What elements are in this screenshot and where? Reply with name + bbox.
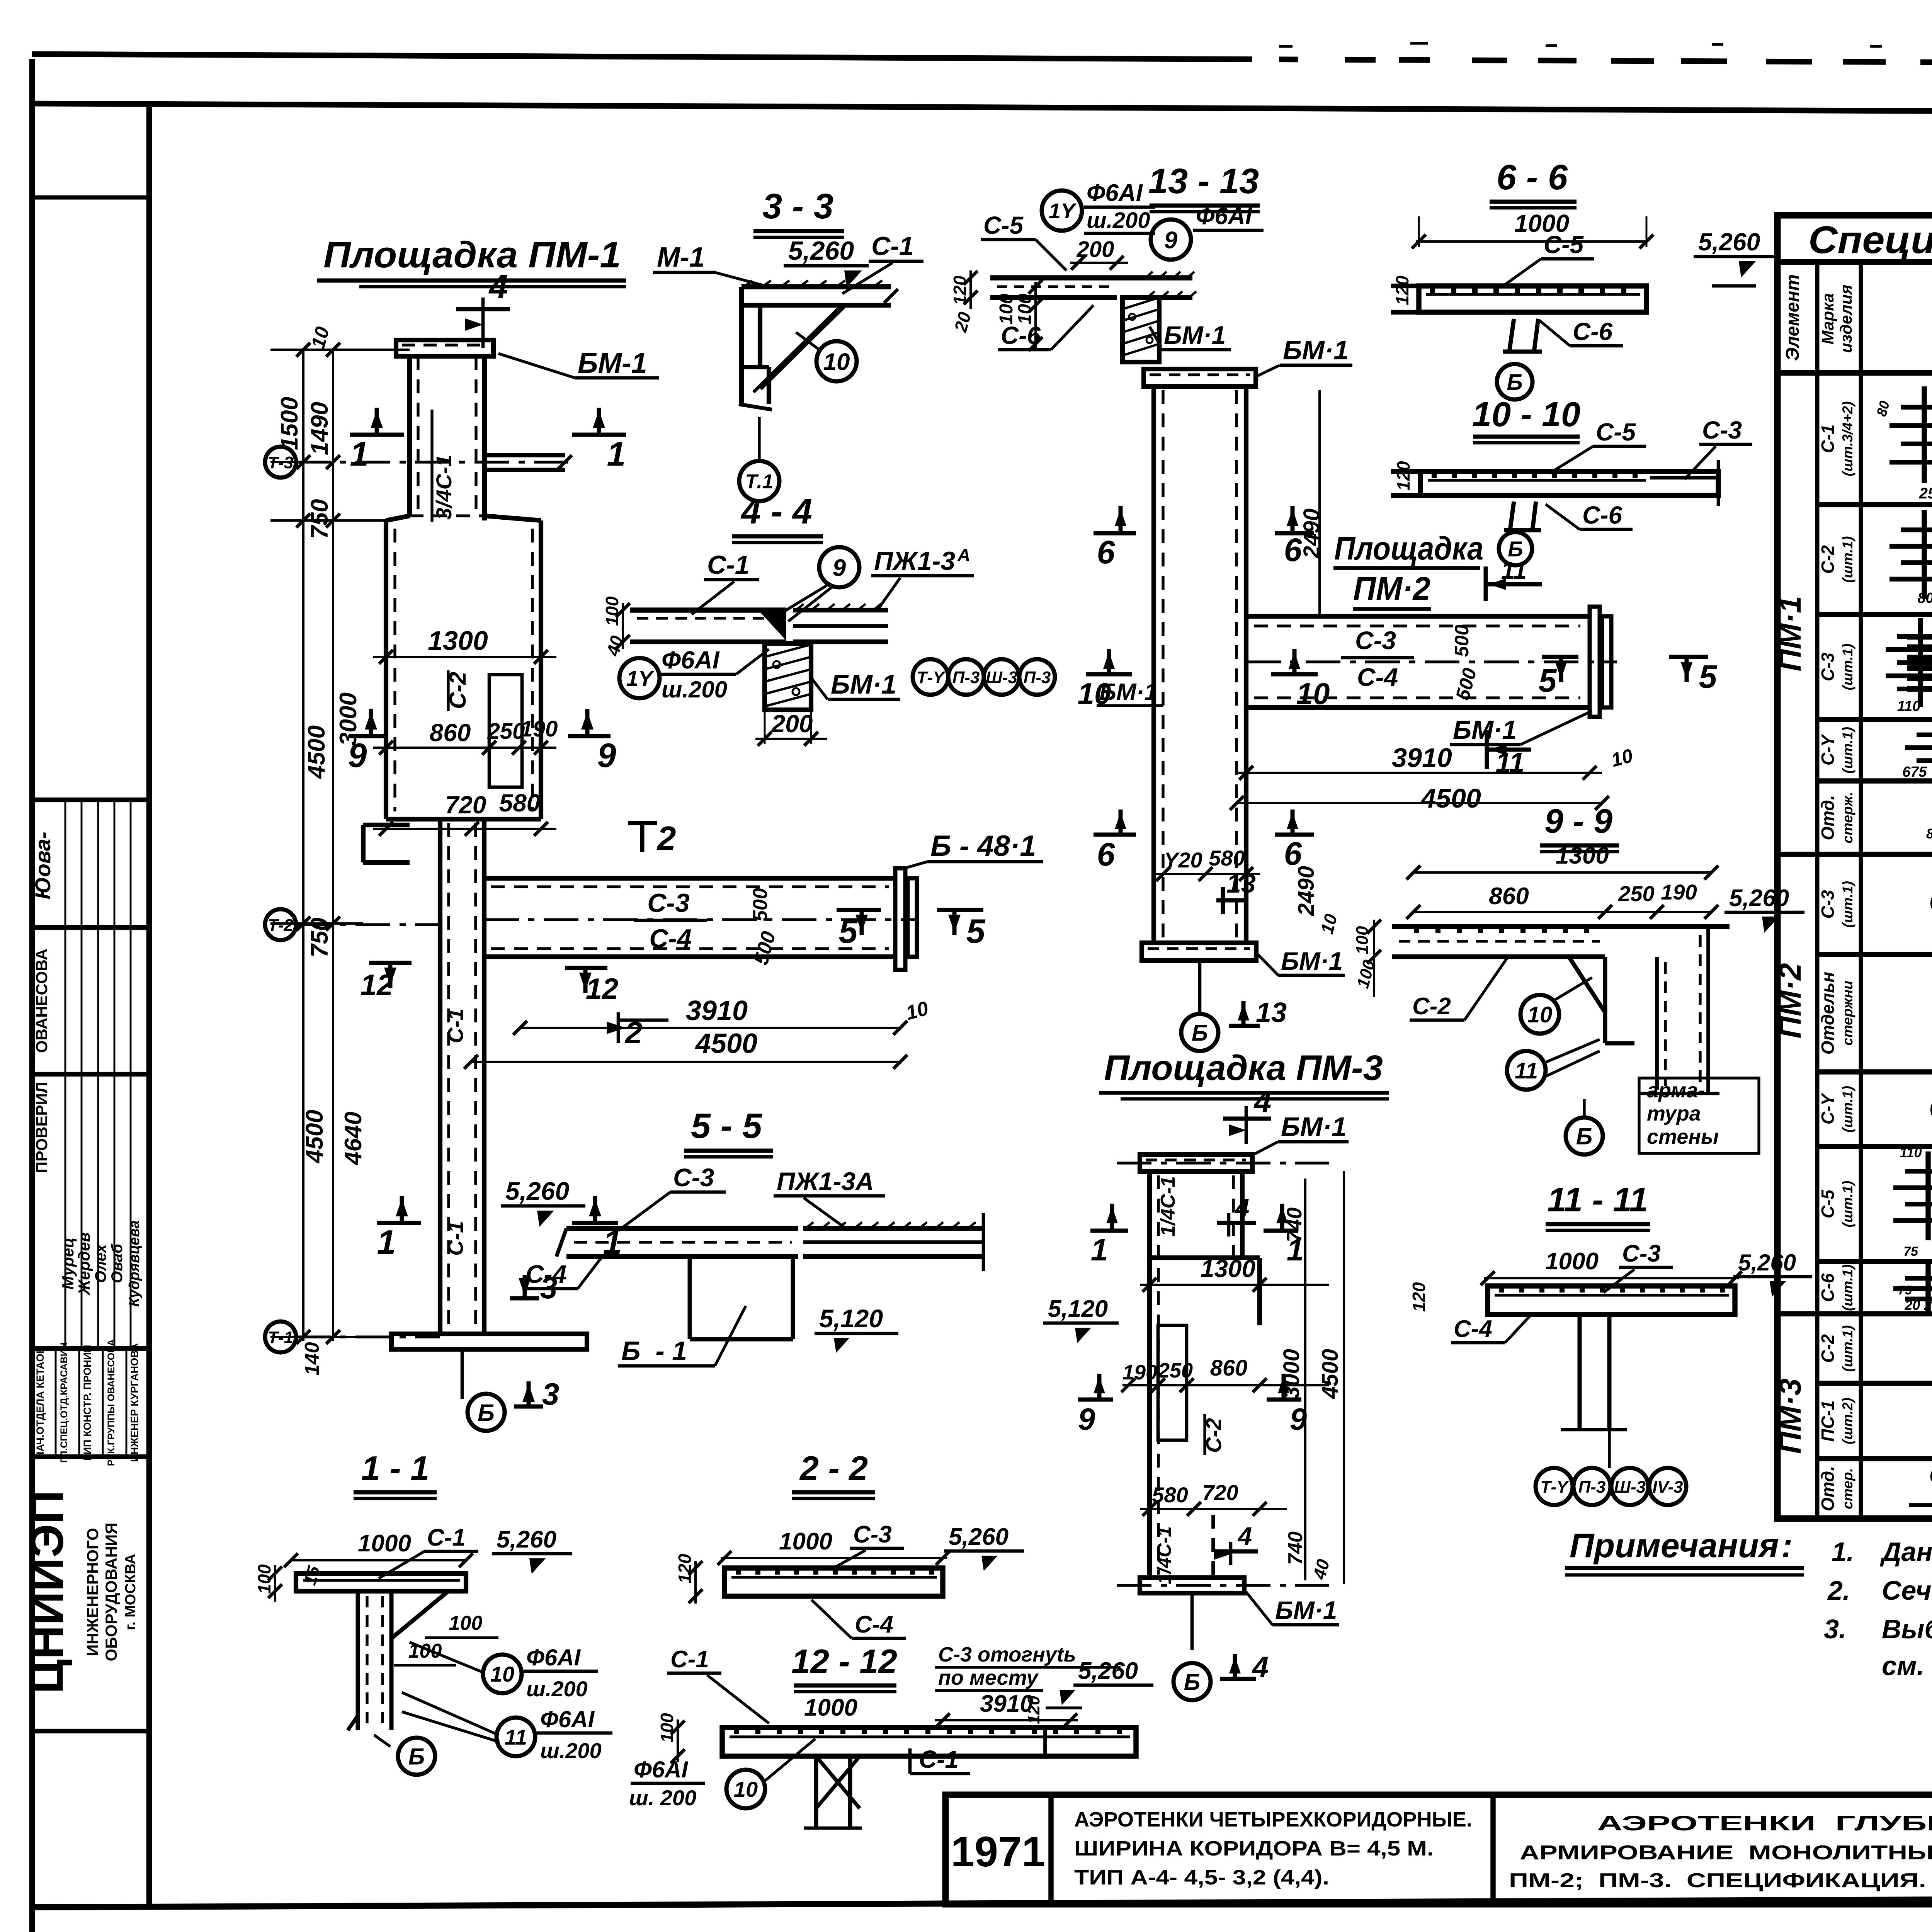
plan PM-3 section mark 9 left [1078, 1398, 1113, 1402]
plan PM-2 section mark 10 left [1086, 672, 1132, 677]
svg-text:С-3: С-3 [1355, 626, 1396, 655]
spec table eskiz C-4 mesh [1917, 733, 1932, 737]
plan PM-1 dim chain lines left [302, 348, 304, 1341]
section 12-12 stem with X-brace [814, 1756, 818, 1828]
svg-text:ПМ·2: ПМ·2 [1353, 570, 1430, 607]
svg-text:(шт.1): (шт.1) [1840, 881, 1855, 928]
svg-text::: : [1781, 1526, 1793, 1565]
svg-text:БМ·1: БМ·1 [1281, 1112, 1347, 1142]
svg-text:3 - 3: 3 - 3 [762, 187, 833, 226]
plan PM-3 top bearing plate [1140, 1155, 1252, 1172]
plan PM-3 mark 4 small [1227, 1213, 1231, 1236]
svg-text:75: 75 [1903, 1244, 1918, 1259]
svg-text:120: 120 [675, 1554, 695, 1583]
svg-text:Т-2: Т-2 [268, 916, 294, 935]
title block vertical dividers [1048, 1795, 1053, 1904]
svg-text:ПЖ1-3А: ПЖ1-3А [777, 1167, 874, 1196]
svg-text:С-1: С-1 [443, 1221, 468, 1256]
svg-text:1.: 1. [1832, 1537, 1854, 1567]
section 3-3 callout 10 [816, 341, 857, 381]
section 9-9 callout 10 [1520, 995, 1559, 1034]
svg-text:С-2: С-2 [1818, 545, 1838, 574]
svg-text:ПЖ1-3: ПЖ1-3 [874, 546, 955, 576]
svg-text:Т.1: Т.1 [745, 471, 773, 493]
section 3-3 axis circle T.1 [739, 461, 779, 501]
svg-text:ш.200: ш.200 [1087, 208, 1150, 233]
section 4-4 callout 14 rebar [619, 658, 660, 698]
svg-text:(шт.3/4+2): (шт.3/4+2) [1840, 401, 1855, 476]
svg-text:БМ·1: БМ·1 [1281, 947, 1343, 975]
svg-text:стержни: стержни [1840, 981, 1855, 1046]
plan PM-1 section mark 1 lower left [377, 1221, 421, 1225]
svg-text:IV-3: IV-3 [1652, 1478, 1683, 1497]
plan PM-2 top bearing plate [1144, 369, 1256, 386]
svg-text:9: 9 [597, 736, 616, 774]
section 9-9 callout 11 [1507, 1051, 1546, 1090]
svg-text:Отд.: Отд. [1818, 1466, 1838, 1511]
svg-text:г. МОСКВА: г. МОСКВА [122, 1554, 139, 1630]
svg-text:С-1: С-1 [443, 1009, 468, 1043]
svg-text:Кудрявцева: Кудрявцева [126, 1220, 143, 1307]
svg-text:120: 120 [1392, 276, 1412, 305]
svg-text:10: 10 [823, 349, 850, 375]
section 5-5 slab right [803, 1226, 983, 1231]
svg-text:С-Y: С-Y [1818, 1092, 1838, 1125]
plan PM-1 section mark 3 upper [510, 1296, 539, 1301]
svg-text:ПС-1: ПС-1 [1818, 1400, 1838, 1442]
svg-text:Б: Б [1576, 1124, 1592, 1150]
svg-text:Данный лист см. совместно: Данный лист см. совместно с листом КС-34… [1880, 1537, 1932, 1567]
svg-text:Олех: Олех [92, 1244, 109, 1283]
svg-text:(шт.1): (шт.1) [1840, 1181, 1855, 1228]
section 1-1 node B [398, 1738, 435, 1775]
svg-text:П-3: П-3 [1024, 668, 1051, 687]
svg-text:1000: 1000 [1545, 1248, 1599, 1275]
svg-text:720: 720 [445, 791, 486, 819]
plan PM-1 section mark 5 right [937, 908, 983, 912]
section 4-4 column hatched [765, 643, 811, 710]
svg-text:3.: 3. [1824, 1614, 1846, 1644]
plan PM-1 lower wall strip [438, 819, 442, 1334]
section 6-6 node B [1497, 364, 1532, 400]
svg-text:Б - 48·1: Б - 48·1 [930, 830, 1036, 862]
svg-text:ТИП А-4- 4,5- 3,2 (4,4).: ТИП А-4- 4,5- 3,2 (4,4). [1074, 1866, 1329, 1889]
svg-text:5,260: 5,260 [949, 1524, 1009, 1550]
sheet inner border bottom [32, 1896, 1932, 1907]
svg-text:1: 1 [607, 435, 626, 473]
svg-text:С-1: С-1 [919, 1745, 959, 1773]
plan PM-1 axis T-2 [265, 909, 296, 940]
svg-text:140: 140 [301, 1342, 323, 1376]
svg-text:ИНЖЕНЕРНОГО: ИНЖЕНЕРНОГО [83, 1528, 102, 1656]
svg-text:10: 10 [1296, 677, 1330, 711]
svg-text:190: 190 [1661, 880, 1697, 904]
svg-text:6: 6 [1284, 532, 1303, 568]
spec table eskiz C-3 mesh [1897, 634, 1932, 639]
svg-text:ИНЖЕНЕР КУРГАНОВА: ИНЖЕНЕР КУРГАНОВА [129, 1343, 140, 1462]
svg-text:стерж.: стерж. [1840, 792, 1855, 843]
section 1-1 brace [391, 1591, 448, 1638]
svg-text:80: 80 [1926, 826, 1932, 842]
svg-text:Б: Б [1192, 1020, 1208, 1046]
svg-text:5,260: 5,260 [1698, 228, 1760, 256]
plan PM-1 bottom plate [391, 1334, 587, 1349]
plan PM-3 section mark 1 upper right [1264, 1229, 1298, 1233]
svg-text:Мурец: Мурец [59, 1237, 77, 1289]
svg-text:С-1: С-1 [427, 1524, 466, 1551]
svg-text:120: 120 [1393, 461, 1413, 491]
svg-text:Примечания: Примечания [1570, 1526, 1779, 1565]
svg-text:1000: 1000 [358, 1530, 411, 1557]
plan PM-1 wall opening dashed [489, 675, 522, 787]
spec table eskiz C-5 mesh [1905, 1169, 1932, 1173]
svg-text:ОБОРУДОВАНИЯ: ОБОРУДОВАНИЯ [102, 1523, 120, 1662]
svg-text:БМ·1: БМ·1 [831, 669, 896, 699]
plan PM-1 axis arm beam [485, 453, 565, 457]
plan PM-3 wall strip [1147, 1172, 1152, 1578]
section 9-9 node B [1566, 1117, 1603, 1155]
svg-text:Б - 1: Б - 1 [621, 1336, 687, 1366]
svg-text:С-3: С-3 [1818, 653, 1838, 682]
section 3-3 brace [760, 305, 844, 388]
svg-text:стер.: стер. [1840, 1468, 1855, 1509]
section 11-11 slab [1488, 1286, 1735, 1315]
svg-text:БМ·1: БМ·1 [1275, 1596, 1337, 1624]
axis circles row T-4 P-3 Sh-3 IV-3 lower [1536, 1468, 1573, 1505]
svg-text:С-4: С-4 [1454, 1316, 1492, 1342]
svg-text:5: 5 [1699, 658, 1718, 695]
svg-text:5,260: 5,260 [1078, 1658, 1138, 1684]
svg-text:4500: 4500 [695, 1028, 757, 1059]
svg-text:С-5: С-5 [1596, 418, 1636, 446]
sheet outer border left [29, 59, 35, 1932]
svg-text:75: 75 [1898, 1283, 1912, 1297]
svg-text:ГЛ.СПЕЦ.ОТД.КРАСАВИН: ГЛ.СПЕЦ.ОТД.КРАСАВИН [59, 1342, 70, 1463]
svg-text:500: 500 [749, 888, 772, 922]
svg-text:М-1: М-1 [657, 242, 705, 273]
svg-text:НАЧ.ОТДЕЛА КЕТАОВ: НАЧ.ОТДЕЛА КЕТАОВ [34, 1346, 46, 1459]
svg-text:4640: 4640 [340, 1112, 367, 1166]
svg-text:4: 4 [1237, 1522, 1252, 1550]
svg-text:4500: 4500 [1318, 1349, 1343, 1399]
svg-text:Площадка ПМ-1: Площадка ПМ-1 [323, 234, 621, 276]
plan PM-1 section mark 1 right [572, 433, 626, 437]
svg-text:Т-Y: Т-Y [1541, 1478, 1570, 1497]
section 10-10 bottom stub [1510, 502, 1514, 530]
plan PM-3 lower block [1147, 1515, 1152, 1578]
top border scan breaks [1252, 49, 1279, 65]
svg-text:С-5: С-5 [1818, 1189, 1838, 1219]
svg-text:6: 6 [1097, 836, 1116, 872]
svg-text:ПМ·1: ПМ·1 [1773, 596, 1807, 671]
section 10-10 mark 11 [1484, 566, 1488, 601]
svg-text:(шт.2): (шт.2) [1840, 1398, 1855, 1444]
plan PM-1 upper wall strip [407, 356, 412, 516]
svg-text:ПМ-2; ПМ-3. СПЕЦИФИКАЦИЯ.: ПМ-2; ПМ-3. СПЕЦИФИКАЦИЯ. [1509, 1869, 1926, 1892]
svg-text:120: 120 [1024, 1696, 1043, 1724]
plan PM-2 section mark 6 lower right [1275, 833, 1314, 837]
section 10-10 left stub [1391, 469, 1420, 474]
svg-text:Ф6АI: Ф6АI [526, 1645, 581, 1670]
svg-text:1971: 1971 [951, 1828, 1046, 1876]
svg-text:740: 740 [1283, 1207, 1306, 1242]
svg-text:5,260: 5,260 [788, 236, 854, 265]
svg-text:С-3: С-3 [1622, 1240, 1661, 1267]
svg-text:750: 750 [306, 918, 333, 957]
section 12-12 slab [722, 1728, 1136, 1756]
svg-text:2 - 2: 2 - 2 [799, 1449, 868, 1487]
svg-text:ЦНИИЭП: ЦНИИЭП [20, 1490, 73, 1694]
svg-text:1000: 1000 [779, 1528, 832, 1555]
svg-text:Ш-3: Ш-3 [986, 668, 1017, 687]
svg-text:С-3 отогнуtь: С-3 отогнуtь [938, 1643, 1076, 1666]
section 4-4 slab right PZh [793, 608, 888, 612]
svg-text:3/4С-1: 3/4С-1 [432, 455, 456, 520]
svg-text:Ф6АI: Ф6АI [1196, 203, 1253, 230]
svg-text:250: 250 [487, 719, 525, 744]
plan PM-2 section mark 6 upper left [1094, 531, 1136, 536]
svg-text:1300: 1300 [1556, 842, 1609, 869]
svg-text:См. выше.: См. выше. [1929, 884, 1932, 918]
sheet outer border top [32, 54, 1932, 66]
plan PM-2 section mark 10 right [1271, 672, 1318, 677]
svg-text:(шт.1): (шт.1) [1840, 536, 1855, 583]
svg-text:500: 500 [1451, 624, 1473, 657]
svg-text:10: 10 [1527, 1002, 1553, 1027]
title block outer [946, 1795, 1932, 1904]
svg-text:860: 860 [1489, 883, 1529, 910]
svg-text:20 200х28=5800 20: 20 200х28=5800 20 [1904, 1297, 1932, 1313]
svg-text:200: 200 [771, 710, 813, 738]
svg-text:6: 6 [1097, 534, 1116, 570]
spec table eskiz C-2 mesh [1901, 527, 1932, 532]
plan PM-2 section mark 6 lower left [1094, 833, 1136, 837]
svg-text:Оваб: Оваб [109, 1243, 126, 1283]
section 6-6 left wall stub [1391, 284, 1419, 288]
svg-text:(шт.1): (шт.1) [1840, 1264, 1855, 1311]
spec table eskiz ditto mark [1909, 1503, 1932, 1507]
svg-text:Ш-3: Ш-3 [1614, 1478, 1646, 1497]
spec table header column lines [1815, 262, 1820, 373]
svg-text:110: 110 [1900, 1145, 1922, 1160]
svg-text:РУК.ГРУППЫ ОВАНЕСОВА: РУК.ГРУППЫ ОВАНЕСОВА [106, 1339, 117, 1466]
svg-text:Ф6АI: Ф6АI [634, 1757, 689, 1782]
svg-text:ш. 200: ш. 200 [629, 1786, 696, 1810]
svg-text:3910: 3910 [1392, 743, 1452, 773]
svg-text:Б: Б [1507, 370, 1522, 395]
svg-text:изделия: изделия [1837, 285, 1855, 353]
svg-text:ш.200: ш.200 [662, 677, 727, 702]
svg-text:С-2: С-2 [1818, 1334, 1838, 1363]
svg-text:1: 1 [377, 1223, 396, 1261]
section 12-12 callout 10 [726, 1770, 765, 1808]
section 13-13 callout 14 [1042, 190, 1082, 231]
svg-text:100: 100 [602, 596, 622, 626]
svg-text:А: А [957, 545, 970, 565]
svg-text:675: 675 [1902, 764, 1927, 780]
svg-text:12: 12 [586, 973, 619, 1005]
svg-text:860: 860 [1210, 1355, 1248, 1381]
svg-text:1: 1 [1091, 1233, 1108, 1267]
plan PM-1 section mark 1 lower right [572, 1221, 618, 1225]
plan PM-1 beam arm right [484, 876, 895, 881]
svg-text:Б: Б [478, 1400, 495, 1426]
svg-text:БМ-1: БМ-1 [578, 347, 647, 379]
svg-text:Ф6АI: Ф6АI [662, 646, 720, 674]
svg-text:1000: 1000 [804, 1694, 857, 1721]
svg-text:100: 100 [657, 1713, 677, 1743]
left strip signature table column lines [65, 800, 66, 1349]
section 9-9 wall below dashed [1655, 957, 1659, 1090]
svg-text:4500: 4500 [303, 725, 330, 779]
svg-text:Жердев: Жердев [75, 1232, 93, 1296]
plan PM-2 section mark 5 left [1542, 655, 1578, 659]
plan PM-3 opening dashed [1158, 1325, 1187, 1440]
section 2-2 slab [724, 1568, 943, 1596]
svg-text:580: 580 [499, 789, 541, 817]
plan PM-3 section mark 4 top [1245, 1106, 1248, 1144]
plan PM-3 axis line top [1117, 1162, 1329, 1164]
svg-text:120: 120 [1409, 1282, 1429, 1312]
svg-text:С-6: С-6 [1573, 318, 1613, 345]
svg-text:С-4: С-4 [855, 1611, 893, 1638]
svg-text:190: 190 [1122, 1361, 1157, 1384]
plan PM-1 section mark 2 top [628, 821, 657, 825]
svg-text:250: 250 [1919, 485, 1932, 502]
svg-text:С-3: С-3 [1818, 890, 1838, 919]
svg-text:1: 1 [350, 435, 369, 473]
plan PM-1 top bearing plate [396, 340, 493, 356]
left strip name-row column lines [55, 1349, 57, 1457]
svg-text:БМ·1: БМ·1 [1283, 335, 1349, 365]
svg-text:4: 4 [488, 267, 508, 306]
svg-text:Площадка ПМ-3: Площадка ПМ-3 [1104, 1048, 1383, 1088]
section 6-6 slab [1419, 286, 1646, 312]
svg-text:С-3: С-3 [647, 888, 690, 918]
spec table body column lines [1815, 373, 1820, 1519]
svg-text:С-6: С-6 [1001, 321, 1041, 349]
svg-text:5,120: 5,120 [819, 1304, 883, 1333]
plan PM-2 node B bottom [1198, 961, 1202, 1012]
svg-text:11: 11 [1515, 1058, 1538, 1083]
section 13-13 wall hatched [1122, 298, 1159, 362]
spec table eskiz C-1 mesh [1901, 405, 1932, 410]
svg-text:стены: стены [1647, 1125, 1719, 1148]
svg-text:12 - 12: 12 - 12 [791, 1642, 897, 1680]
section 1-1 callout 11 [497, 1718, 535, 1756]
section 5-5 beam below [688, 1257, 692, 1339]
svg-text:5,260: 5,260 [497, 1526, 556, 1553]
svg-text:АРМИРОВАНИЕ МОНОЛИТНЫХ ПЛОЩА: АРМИРОВАНИЕ МОНОЛИТНЫХ ПЛОЩАДОК ПМ-1; [1520, 1842, 1932, 1864]
svg-text:13: 13 [1256, 997, 1287, 1028]
svg-text:5: 5 [839, 912, 858, 950]
svg-text:9: 9 [1164, 227, 1178, 253]
section 3-3 wall leg [739, 287, 744, 406]
svg-text:Ф6АI: Ф6АI [540, 1706, 595, 1732]
plan PM-1 section mark 1 left [350, 433, 404, 437]
plan PM-2 beam end plate [1590, 607, 1600, 717]
svg-text:С-1: С-1 [871, 231, 914, 261]
section 9-9 slab [1392, 924, 1730, 929]
svg-text:Отд.: Отд. [1818, 795, 1838, 840]
svg-text:10: 10 [734, 1777, 758, 1801]
svg-text:(шт.1): (шт.1) [1840, 644, 1855, 690]
svg-text:Отдельн: Отдельн [1818, 972, 1838, 1054]
section 13-13 callout 9 [1151, 219, 1191, 260]
svg-text:(шт.1): (шт.1) [1840, 1325, 1855, 1372]
svg-text:11: 11 [505, 1725, 527, 1749]
svg-text:С-4: С-4 [1357, 663, 1398, 691]
svg-text:4: 4 [1253, 1084, 1272, 1119]
plan PM-2 mark 13 upper [1216, 898, 1248, 903]
svg-text:5,260: 5,260 [1738, 1250, 1796, 1276]
svg-text:1490: 1490 [306, 402, 333, 455]
svg-text:Б: Б [408, 1744, 425, 1770]
svg-text:П-3: П-3 [1578, 1478, 1606, 1497]
svg-text:см. на листе КС-37.: см. на листе КС-37. [1882, 1651, 1932, 1681]
svg-text:С-1: С-1 [670, 1646, 709, 1673]
section 3-3 slab [742, 284, 891, 289]
svg-text:5: 5 [1539, 662, 1557, 699]
plan PM-1 section mark 12 right [565, 966, 607, 970]
svg-text:720: 720 [1202, 1480, 1238, 1505]
axis circles row T-4 P-3 Sh-3 P-3 [913, 659, 948, 695]
svg-text:(шт.1): (шт.1) [1840, 1086, 1855, 1133]
svg-text:740: 740 [1284, 1531, 1307, 1565]
section 10-10 slab [1420, 471, 1718, 495]
svg-text:9: 9 [348, 736, 367, 774]
svg-text:С-6: С-6 [1818, 1273, 1838, 1302]
left column strip right edge [146, 107, 152, 1906]
svg-text:ш.200: ш.200 [540, 1738, 602, 1763]
svg-text:С-4: С-4 [649, 924, 692, 953]
svg-text:Выборку арматуры и расход м: Выборку арматуры и расход материалов [1882, 1614, 1932, 1644]
svg-text:1Y: 1Y [626, 666, 655, 690]
svg-text:2: 2 [656, 819, 676, 857]
plan PM-2 section mark 5 right [1669, 655, 1708, 659]
plan PM-1 step notch [361, 825, 366, 862]
plan PM-2 section mark 6 upper right [1275, 531, 1314, 536]
svg-text:1300: 1300 [428, 626, 488, 656]
svg-text:С-6: С-6 [1582, 501, 1622, 529]
svg-text:ПМ·3: ПМ·3 [1773, 1378, 1807, 1454]
section 4-4 slab left [630, 607, 786, 612]
spec table outer border [1777, 215, 1932, 1519]
svg-text:1300: 1300 [1201, 1255, 1255, 1282]
section 13-13 slab [990, 275, 1192, 280]
svg-text:С-3: С-3 [673, 1163, 714, 1192]
section 1-1 slab [296, 1573, 466, 1591]
svg-text:860: 860 [430, 719, 471, 747]
svg-text:110: 110 [1897, 698, 1921, 714]
plan PM-3 section mark 1 upper left [1090, 1229, 1128, 1233]
svg-text:1Y: 1Y [1049, 199, 1077, 223]
plan PM-2 beam arm right [1246, 614, 1590, 619]
svg-text:арма-: арма- [1647, 1079, 1705, 1102]
svg-text:Сеч. 7- 7 и 8- 8 расположены: Сеч. 7- 7 и 8- 8 расположены на листе КС… [1882, 1575, 1932, 1605]
svg-text:С-1: С-1 [1818, 424, 1838, 453]
section 5-5 slab left [566, 1226, 798, 1231]
svg-text:См. выше.: См. выше. [1929, 1091, 1932, 1125]
svg-text:АЭРОТЕНКИ ГЛУБИНОЙ 4,4 м.: АЭРОТЕНКИ ГЛУБИНОЙ 4,4 м. [1597, 1811, 1932, 1835]
plan PM-1 beam end plate B-48.1 [895, 868, 905, 970]
svg-text:2490: 2490 [1294, 866, 1319, 916]
svg-text:3000: 3000 [1279, 1349, 1304, 1399]
svg-text:ОВАНЕСОВА: ОВАНЕСОВА [32, 949, 51, 1053]
svg-text:190: 190 [520, 716, 558, 742]
plan PM-1 axis T-3 [265, 447, 296, 478]
svg-text:Ф6АI: Ф6АI [1087, 180, 1143, 206]
